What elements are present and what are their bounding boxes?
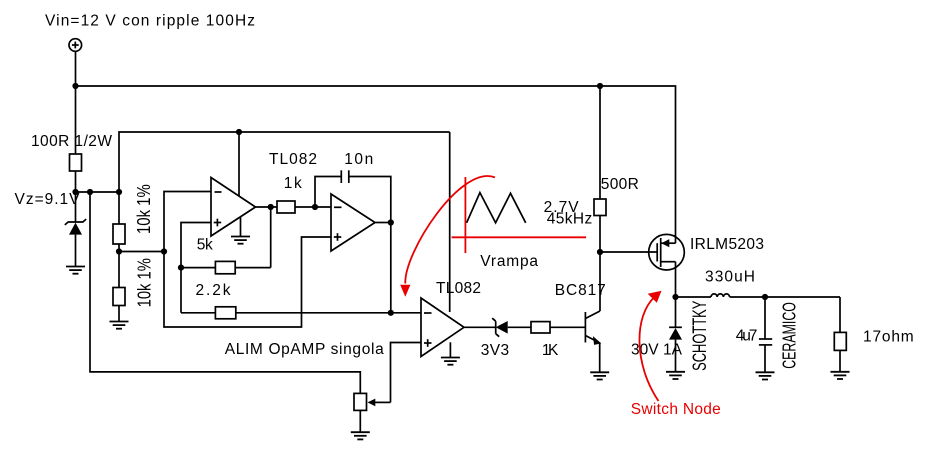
wire ramp to U3 inverting input <box>391 312 421 314</box>
wire 5k feedback to U1 output <box>270 207 272 268</box>
label TL082 second <box>436 280 481 297</box>
svg-text:10k 1%: 10k 1% <box>134 258 155 308</box>
ground stub op-amp U1 <box>240 218 242 237</box>
svg-text:TL082: TL082 <box>436 280 481 297</box>
wire output to load <box>765 296 840 298</box>
label 330uH <box>705 268 755 285</box>
label 1k <box>284 175 302 192</box>
ground below zener <box>66 267 85 274</box>
svg-text:2.2k: 2.2k <box>196 282 231 299</box>
Vin terminal <box>69 39 82 52</box>
label ALIM OpAMP singola <box>225 341 384 358</box>
red arrow switch node <box>639 291 661 401</box>
junction Vz b <box>87 189 93 195</box>
svg-text:4u7: 4u7 <box>736 328 758 345</box>
label 30V 1A <box>631 342 683 359</box>
zener diode Vz 9.1V <box>65 192 86 266</box>
resistor 2.2k <box>181 307 391 319</box>
junction Vin rail left <box>72 83 78 89</box>
junction divider mid b <box>161 248 167 254</box>
junction U2 output <box>388 219 394 225</box>
transistor BC817 <box>585 252 601 372</box>
ramp axis horizontal red <box>452 236 586 238</box>
svg-text:5k: 5k <box>197 237 213 254</box>
label 500R <box>601 176 639 193</box>
label CERAMICO <box>780 302 800 369</box>
junction U2 inverting node <box>312 204 318 210</box>
wire Vz supply rail <box>119 132 450 192</box>
svg-text:45kHz: 45kHz <box>547 210 592 227</box>
label TL082 first <box>269 151 317 168</box>
svg-text:17ohm: 17ohm <box>863 329 914 346</box>
resistor 1K base <box>531 322 585 333</box>
wire op-amp U1 V+ <box>238 132 240 197</box>
svg-text:TL082: TL082 <box>269 151 317 168</box>
resistor 500R <box>594 86 606 252</box>
wire U1 + input <box>181 223 211 313</box>
svg-text:IRLM5203: IRLM5203 <box>690 236 764 253</box>
svg-text:500R: 500R <box>601 176 639 193</box>
op-amp U1 TL082 comparator <box>211 178 256 237</box>
wire switch node to inductor <box>676 296 712 298</box>
resistor 17ohm load <box>834 297 846 372</box>
MOSFET IRLM5203 <box>649 234 685 297</box>
label Switch Node red <box>631 401 721 418</box>
ground below capacitor <box>756 372 775 379</box>
ground below 17ohm <box>831 372 850 379</box>
capacitor 10n integrator <box>315 170 391 222</box>
resistor 100R <box>70 154 82 192</box>
wire U2 output <box>375 222 391 224</box>
wire wiper to U3 + input <box>391 343 422 403</box>
capacitor 4u7 <box>759 297 772 372</box>
junction divider mid a <box>116 248 122 254</box>
label 10k 1% lower <box>134 258 155 308</box>
wire op-amp U3 V+ <box>449 132 451 312</box>
svg-text:ALIM OpAMP singola: ALIM OpAMP singola <box>225 341 384 358</box>
ground below U1 <box>231 237 250 244</box>
ground below potentiometer <box>351 432 370 439</box>
svg-text:1K: 1K <box>542 342 559 359</box>
inductor 330uH <box>711 294 765 297</box>
junction Vz a <box>72 189 78 195</box>
label SCHOTTKY <box>689 301 711 371</box>
svg-text:100R 1/2W: 100R 1/2W <box>31 133 112 150</box>
svg-text:10k 1%: 10k 1% <box>133 184 154 234</box>
junction gate node <box>597 249 603 255</box>
label 45kHz <box>547 210 592 227</box>
svg-text:10n: 10n <box>344 151 373 168</box>
resistor 10k upper <box>113 192 125 252</box>
junction ramp node <box>388 310 394 316</box>
svg-text:BC817: BC817 <box>555 282 606 299</box>
svg-text:Switch Node: Switch Node <box>631 401 721 418</box>
svg-text:3V3: 3V3 <box>481 342 509 359</box>
label 17ohm <box>863 329 914 346</box>
ground below 10k lower <box>110 322 129 329</box>
label 5k <box>197 237 213 254</box>
wire divider mid node <box>119 251 164 253</box>
label 2.2k <box>196 282 231 299</box>
ground below BC817 emitter <box>590 372 609 379</box>
label 10k 1% upper <box>133 184 154 234</box>
junction output node <box>762 294 768 300</box>
ground below U3 <box>441 358 460 365</box>
schottky diode 30V 1A <box>669 297 682 372</box>
junction 5k tap <box>178 265 184 271</box>
svg-text:Vrampa: Vrampa <box>480 253 538 270</box>
ramp waveform <box>467 193 526 223</box>
junction U1 output <box>268 204 274 210</box>
junction switch node <box>672 294 678 300</box>
wire U1 inverting input / U2 noninverting ref <box>164 192 331 328</box>
label 3V3 <box>481 342 509 359</box>
junction Vin rail at 500R <box>597 83 603 89</box>
label 1K <box>542 342 559 359</box>
label IRLM5203 <box>690 236 764 253</box>
ramp axis vertical red <box>464 177 466 253</box>
svg-text:Vz=9.1V: Vz=9.1V <box>15 191 81 208</box>
junction supply rail <box>236 129 242 135</box>
op-amp U3 TL082 PWM comparator <box>421 298 464 357</box>
label 10n <box>344 151 373 168</box>
label Vrampa <box>480 253 538 270</box>
label 4u7 <box>736 328 758 345</box>
svg-text:330uH: 330uH <box>705 268 755 285</box>
junction Vz c <box>116 189 122 195</box>
red arrow ramp to U3 <box>400 176 495 297</box>
label Vin <box>45 12 255 29</box>
resistor 10k lower <box>113 252 125 322</box>
node Vz wire <box>76 191 120 193</box>
svg-text:CERAMICO: CERAMICO <box>780 302 800 369</box>
op-amp U2 TL082 integrator <box>331 194 375 251</box>
label Vz=9.1V <box>15 191 81 208</box>
zener diode 3V3 <box>464 318 531 337</box>
ground stub op-amp U3 <box>449 342 451 357</box>
wire gate <box>600 251 657 253</box>
wire U2 output down <box>390 223 392 313</box>
wire U1 output <box>256 206 278 208</box>
ground below schottky <box>666 372 685 379</box>
wire Vin top rail to MOSFET source <box>76 86 676 243</box>
label 2.7V <box>544 199 580 216</box>
resistor 5k <box>181 261 271 273</box>
resistor 1k <box>277 201 331 213</box>
wire Vin vertical to 100R <box>75 51 77 154</box>
label BC817 <box>555 282 606 299</box>
wire feedback from Vz node to potentiometer <box>90 192 360 393</box>
potentiometer <box>354 393 391 432</box>
label 100R 1/2W <box>31 133 112 150</box>
svg-text:Vin=12 V con ripple 100Hz: Vin=12 V con ripple 100Hz <box>45 12 255 29</box>
svg-text:SCHOTTKY: SCHOTTKY <box>689 301 711 371</box>
